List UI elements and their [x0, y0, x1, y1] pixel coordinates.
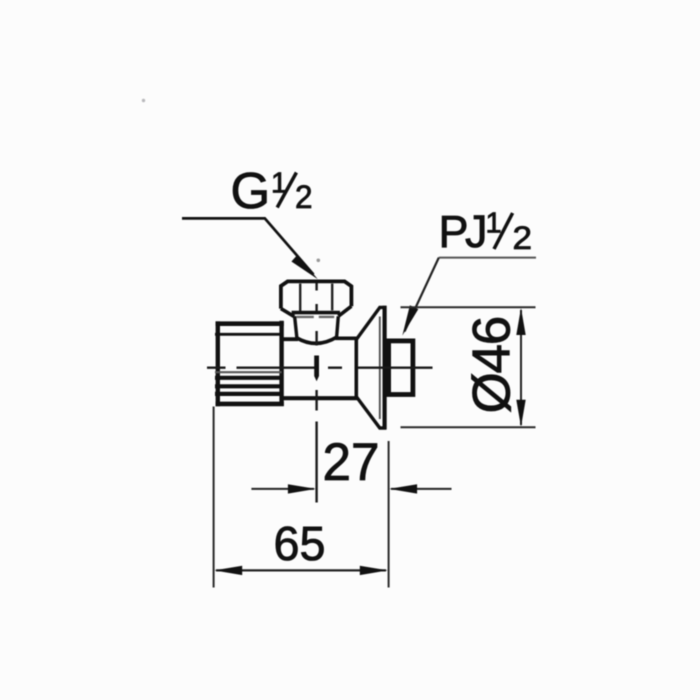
knob inner line upper [215, 333, 282, 336]
dim 27 line right tail [391, 488, 452, 490]
horizontal centerline [207, 367, 433, 369]
knob (handle) left edge [216, 321, 220, 406]
svg-text:1: 1 [486, 208, 502, 240]
dim Ø46 arrow up [516, 308, 525, 335]
dim 65 arrow right-pointing [360, 566, 388, 575]
dim 27 line left tail [251, 488, 314, 490]
ext line right (shared 27/65) [388, 441, 390, 588]
label PJ1/2 [439, 206, 533, 257]
flange cone top slant [357, 307, 387, 339]
flange inner crease line [379, 317, 381, 420]
fraction slash of G1/2 [277, 173, 296, 208]
svg-text:Ø46: Ø46 [463, 317, 522, 414]
flange cone base line [354, 338, 358, 398]
dim 65 arrow left-pointing [214, 566, 242, 575]
svg-text:PJ: PJ [439, 206, 486, 257]
dim 65 line [216, 569, 386, 571]
body tube top edge left [282, 337, 298, 341]
bonnet left side [295, 316, 297, 338]
knob band 2 [215, 384, 282, 388]
leader line G1/2 [182, 218, 314, 274]
svg-text:G: G [231, 162, 271, 219]
leader arrowhead PJ1/2 [402, 305, 418, 335]
knob right edge [279, 321, 283, 406]
nut facet line left [299, 284, 301, 311]
svg-text:2: 2 [295, 179, 313, 215]
nut washer gray dash left [297, 316, 314, 318]
nut bottom-right chamfer [338, 306, 351, 316]
hex nut outline [281, 281, 352, 308]
knob top edge [216, 321, 284, 326]
leader arrowhead G1/2 [291, 255, 317, 280]
svg-text:65: 65 [274, 517, 326, 571]
centerline dot above nut [317, 259, 321, 263]
ext line 65 left [213, 407, 215, 588]
bonnet bottom arc [297, 337, 337, 343]
knob band 1 [215, 376, 282, 380]
nut facet line right [331, 284, 333, 311]
nut washer gray dash right [319, 316, 334, 318]
dim Ø46 line [520, 310, 522, 425]
flange right edge [383, 306, 387, 430]
outlet spigot [389, 341, 413, 395]
svg-text:2: 2 [513, 220, 533, 256]
dim 27 arrow right-pointing [288, 484, 316, 493]
ext line Ø46 bottom [401, 426, 536, 428]
label G1/2 [231, 162, 313, 219]
dim 27 arrow left-pointing [389, 484, 417, 493]
flange cone bottom slant [357, 397, 387, 428]
knob thin gray line [215, 371, 282, 373]
leader line PJ1/2 [439, 257, 536, 259]
vertical centerline [315, 283, 317, 503]
knob bottom edge [216, 402, 284, 407]
body tube bottom edge [282, 396, 357, 400]
svg-text:27: 27 [323, 433, 380, 492]
nut bottom-left chamfer [281, 309, 294, 317]
body tube top edge right [335, 336, 357, 340]
ext line Ø46 top [401, 306, 536, 308]
bonnet right side [337, 316, 339, 337]
dim Ø46 arrow down [516, 400, 525, 427]
knob band 3 [215, 392, 282, 396]
nut bottom face [292, 311, 340, 315]
fraction slash of PJ1/2 [494, 213, 513, 249]
stray speck top-left [142, 99, 145, 102]
centerline thick stem dash [314, 356, 319, 382]
